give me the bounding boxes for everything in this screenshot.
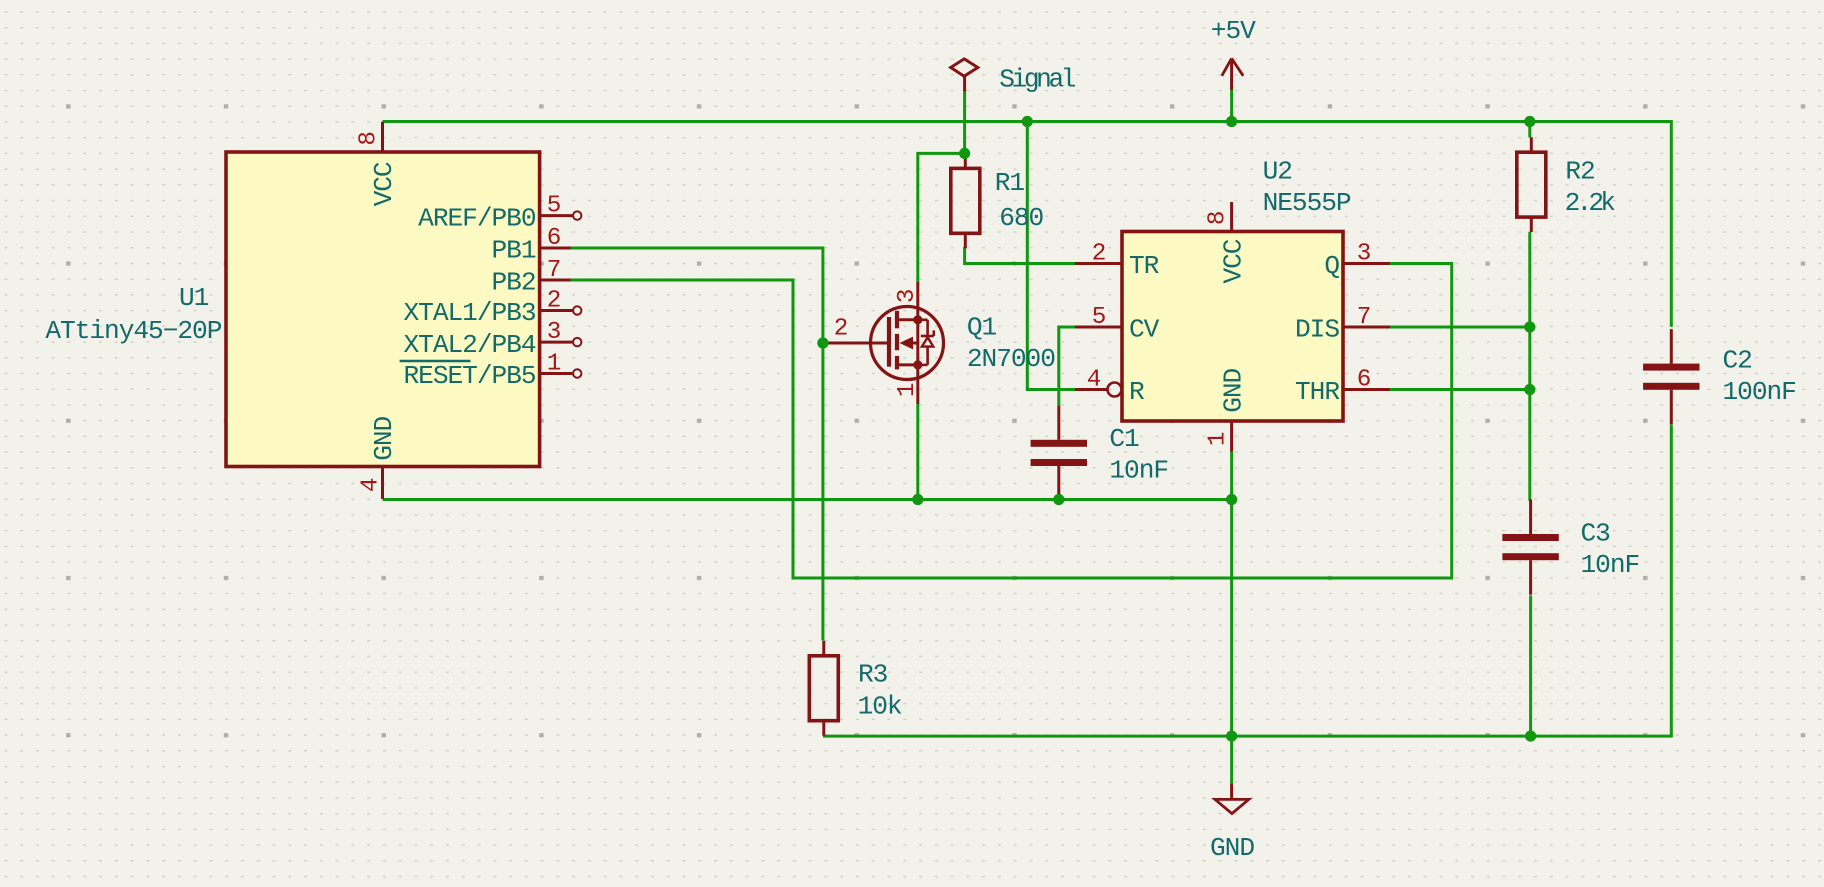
wire +5V top rail to C2 (383, 122, 1672, 327)
svg-text:ATtiny45−20P: ATtiny45−20P (45, 316, 221, 346)
U1 pin name GND (vertical) (369, 416, 399, 460)
Q1 pin number 3 (vertical) (894, 289, 921, 303)
U2 pin 4 R with invert bubble (1075, 366, 1122, 396)
U1 pin 8 VCC (381, 122, 384, 152)
wire rail to R2 top (1528, 122, 1531, 138)
capacitor C3 labels (1581, 518, 1640, 580)
svg-text:R2: R2 (1565, 157, 1594, 187)
U1 pin names (400, 203, 536, 391)
U2 pin 8 VCC (top) (1230, 202, 1233, 232)
svg-text:RESET/PB5: RESET/PB5 (404, 361, 536, 391)
svg-text:C2: C2 (1723, 346, 1752, 376)
wire +5V stub (1230, 90, 1233, 122)
resistor R1 body (951, 153, 980, 248)
U1 value label (45, 316, 221, 346)
hierarchical label Signal (diamond) (951, 59, 978, 92)
wire THR to R2 node (1390, 388, 1530, 391)
wire CV to C1 (1059, 327, 1076, 405)
transistor Q1 2N7000 (823, 282, 944, 404)
svg-text:Signal: Signal (999, 65, 1076, 95)
svg-text:8: 8 (1205, 212, 1232, 226)
U1 pin 4 GND (381, 467, 384, 499)
U2 pin name VCC (vertical) (1219, 239, 1249, 283)
svg-text:U2: U2 (1263, 156, 1292, 186)
ground symbol (1215, 783, 1249, 813)
svg-text:3: 3 (1357, 240, 1371, 267)
U2 pin names (1129, 251, 1340, 407)
wire bottom GND rail to C2 (823, 425, 1671, 737)
svg-text:4: 4 (1087, 366, 1101, 393)
junction gate node (817, 337, 828, 348)
U2 pin 3 Q (1343, 240, 1390, 267)
svg-text:THR: THR (1295, 377, 1340, 407)
U1 pin 7 (PB2) (540, 257, 571, 284)
svg-text:Q1: Q1 (967, 312, 997, 342)
junction source/GND (912, 494, 923, 505)
wire R1 to TR (965, 247, 1076, 263)
wire DIS to R2 node (1390, 326, 1530, 329)
svg-text:3: 3 (894, 289, 921, 303)
wire Signal stem (963, 92, 966, 154)
Q1 value label (967, 344, 1055, 374)
U2 pin 7 DIS (1343, 304, 1390, 331)
svg-text:TR: TR (1129, 251, 1160, 281)
U1 reference label (179, 283, 209, 313)
svg-text:6: 6 (1357, 366, 1371, 393)
U2 pin number 8 (vertical) (1205, 212, 1232, 226)
svg-text:10nF: 10nF (1109, 455, 1168, 485)
svg-text:4: 4 (358, 478, 385, 492)
svg-text:2N7000: 2N7000 (967, 344, 1055, 374)
svg-text:GND: GND (1210, 833, 1254, 863)
svg-text:3: 3 (547, 319, 561, 346)
capacitor C3 plates (1502, 500, 1558, 595)
wire R2 bottom to C3 (1528, 232, 1531, 501)
capacitor C1 plates (1031, 405, 1087, 500)
resistor R2 body (1517, 137, 1546, 232)
U1 pin 1 (RESET/PB5) (540, 350, 582, 377)
wire PB1 to R3/gate (570, 248, 823, 641)
wire Signal to Q1 drain (918, 153, 965, 282)
svg-text:PB2: PB2 (492, 268, 536, 298)
GND label (1210, 833, 1254, 863)
U1 pin number 4 (vertical) (358, 478, 385, 492)
resistor R3 labels (858, 659, 902, 721)
svg-text:1: 1 (1205, 432, 1232, 446)
svg-text:NE555P: NE555P (1263, 188, 1351, 218)
U2 pin 2 TR (1075, 240, 1122, 267)
svg-text:7: 7 (547, 257, 561, 284)
U1 pin 5 (AREF/PB0) (540, 192, 582, 219)
junction THR node (1524, 384, 1535, 395)
svg-text:10k: 10k (858, 692, 902, 722)
Signal label text (999, 65, 1076, 95)
U1 pin 2 (XTAL1/PB3) (540, 287, 582, 314)
ic U2 body (1122, 232, 1343, 422)
svg-text:DIS: DIS (1295, 315, 1339, 345)
svg-text:XTAL2/PB4: XTAL2/PB4 (404, 330, 536, 360)
junction C1/GND (1053, 494, 1064, 505)
svg-text:GND: GND (1219, 368, 1249, 412)
svg-text:C3: C3 (1581, 518, 1611, 548)
resistor R2 labels (1565, 157, 1616, 219)
svg-text:1: 1 (547, 350, 561, 377)
U1 pin 6 (PB1) (540, 225, 571, 252)
wire GND symbol stem (1230, 736, 1233, 783)
U2 pin 5 CV (1075, 304, 1122, 331)
wire GND mid rail (383, 498, 1232, 501)
wire Q to PB2 (570, 264, 1452, 579)
svg-text:8: 8 (356, 132, 383, 146)
svg-text:10nF: 10nF (1581, 550, 1640, 580)
resistor R3 body (809, 641, 838, 736)
svg-text:2.2k: 2.2k (1565, 188, 1616, 218)
junction DIS node (1524, 321, 1535, 332)
+5V label (1211, 16, 1256, 46)
svg-text:2: 2 (547, 287, 561, 314)
wire +5V to pin R (1027, 122, 1076, 390)
capacitor C2 plates (1643, 329, 1699, 424)
svg-text:AREF/PB0: AREF/PB0 (418, 203, 536, 233)
svg-text:XTAL1/PB3: XTAL1/PB3 (404, 298, 536, 328)
capacitor C2 labels (1723, 346, 1796, 407)
svg-text:680: 680 (999, 203, 1043, 233)
svg-text:2: 2 (1092, 240, 1106, 267)
U1 pin name VCC (vertical) (369, 162, 399, 206)
svg-text:7: 7 (1357, 304, 1371, 331)
U1 pin number 8 (vertical) (356, 132, 383, 146)
power symbol +5V (1222, 58, 1243, 90)
junction Signal/R1/drain (959, 148, 970, 159)
junction rail/R2 (1524, 116, 1535, 127)
svg-text:R: R (1129, 377, 1145, 407)
svg-text:Q: Q (1324, 251, 1339, 281)
wire U2 GND pin down (1230, 452, 1233, 736)
svg-text:6: 6 (547, 225, 561, 252)
svg-text:1: 1 (894, 383, 921, 397)
svg-text:C1: C1 (1109, 424, 1139, 454)
U2 pin 1 GND (bottom) (1230, 421, 1233, 452)
svg-text:VCC: VCC (1219, 239, 1249, 283)
svg-text:R1: R1 (995, 168, 1025, 198)
svg-text:VCC: VCC (369, 162, 399, 206)
U2 value label (1263, 188, 1351, 218)
junction rail/+5V (1226, 116, 1237, 127)
junction C3/GND rail (1525, 731, 1536, 742)
svg-text:+5V: +5V (1211, 16, 1256, 46)
svg-text:2: 2 (834, 316, 848, 343)
svg-text:5: 5 (1092, 304, 1106, 331)
capacitor C1 labels (1109, 424, 1168, 486)
U2 pin number 1 (vertical) (1205, 432, 1232, 446)
resistor R1 labels (995, 168, 1044, 233)
svg-text:GND: GND (369, 416, 399, 460)
wire C3 to bottom rail (1529, 595, 1532, 736)
svg-text:100nF: 100nF (1723, 377, 1796, 407)
junction U2GND/GND (1226, 494, 1237, 505)
Q1 pin number 2 (834, 316, 848, 343)
Q1 reference label (967, 312, 997, 342)
svg-text:R3: R3 (858, 659, 888, 689)
ic U1 body (226, 152, 540, 467)
wire Q1 source to GND rail (916, 404, 919, 500)
U2 pin name GND (vertical) (1219, 368, 1249, 412)
U2 pin 6 THR (1343, 366, 1390, 393)
U1 pin 3 (XTAL2/PB4) (540, 319, 582, 346)
svg-text:5: 5 (547, 192, 561, 219)
svg-text:CV: CV (1129, 315, 1160, 345)
junction rail/R-line (1022, 116, 1033, 127)
svg-text:PB1: PB1 (492, 236, 536, 266)
Q1 pin number 1 (vertical) (894, 383, 921, 397)
U2 reference label (1263, 156, 1292, 186)
junction GND rail/symbol (1226, 731, 1237, 742)
svg-text:U1: U1 (179, 283, 209, 313)
